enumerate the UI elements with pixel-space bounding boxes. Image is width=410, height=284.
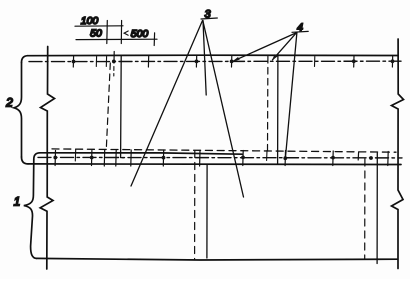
band tick+dot x163.5 (162, 150, 164, 166)
svg-text:100: 100 (81, 15, 99, 27)
axis tick+dot x231.6 (231, 56, 233, 67)
lower panel top edge (40, 153, 242, 154)
right edge with two break symbols (392, 39, 404, 269)
band tick x104.5 (103, 150, 105, 166)
band tick+dot x333 (332, 151, 334, 166)
axis tick+dot x353.8 (353, 56, 355, 67)
axis tick+dot x392.5 (391, 56, 393, 67)
upper panel top edge (28, 54, 399, 57)
axis stub x114 (113, 52, 115, 64)
upper panel top-left corner (22, 56, 28, 63)
upper fastening axis (dash-dot) (29, 60, 401, 62)
band tick+dot x243 (242, 151, 244, 166)
lower joint dashed line x194.7 (194, 151, 196, 260)
upper panel bottom-left corner (22, 157, 29, 164)
svg-text:500: 500 (131, 28, 149, 40)
underline of 4 (292, 30, 308, 33)
extension tick x154.5 (153, 33, 155, 46)
leader 4 long with arrowhead (233, 33, 297, 62)
lower panel top-left corner (34, 153, 40, 159)
underline of 3 (201, 18, 217, 19)
leader 4 short with arrowhead (273, 33, 297, 60)
joint J2 dashed hidden line (267, 57, 269, 153)
axis stub dashes below x114 (113, 67, 115, 77)
dimension line 50/500 (76, 38, 157, 40)
svg-text:1: 1 (14, 194, 21, 208)
band tick+dot x285.3 (284, 151, 286, 166)
svg-text:50: 50 (90, 28, 102, 40)
axis tick x148.5 (147, 56, 149, 67)
joint J1 dashed hidden line (106, 63, 110, 149)
band dot x371 (369, 156, 373, 160)
band tick+dot x91.7 (91, 151, 93, 166)
axis tick x73.5 (72, 56, 74, 67)
band tick x199.8 (199, 151, 201, 167)
extension tick x107 (106, 21, 109, 44)
lower joint solid line x377.2 (376, 153, 378, 264)
band tick x116 (115, 150, 117, 166)
axis tick x314.7 (314, 57, 316, 67)
band tick x75.5 (74, 150, 76, 162)
leader 4 vertical (285, 33, 297, 158)
axis tick x106.5 (105, 57, 107, 67)
leader 3 left diagonal (131, 21, 203, 187)
joint J1 solid line (121, 56, 124, 158)
band T tick x358.4 (357, 152, 359, 160)
axis dot x113.7 (112, 60, 116, 64)
band tick x266.8 (266, 151, 268, 161)
upper panel left edge with brace cusp label 2 (14, 63, 22, 158)
band tick x388 (387, 152, 389, 166)
dimension line 100 (75, 25, 123, 27)
leader 3 middle (203, 21, 206, 96)
lower joint solid line x207 (206, 165, 208, 259)
axis tick+dot x196.5 (195, 56, 197, 67)
svg-text:2: 2 (5, 95, 13, 109)
lower joint dashed line x364.8 (364, 159, 366, 259)
axis tick x96.5 (95, 57, 97, 67)
joint J2 solid line (277, 55, 279, 165)
band fastening axis (dash-dot) (38, 156, 402, 159)
axis dot x73.5 (72, 60, 76, 64)
lower panel left edge with brace cusp label 1 (24, 159, 37, 258)
band hidden dashed line (52, 149, 396, 152)
leader 3 right diagonal (203, 21, 244, 198)
extension tick x121.5 (120, 21, 122, 44)
lower panel bottom edge (37, 258, 398, 260)
arrow before 500 (124, 31, 128, 35)
band tick x131 (130, 150, 132, 166)
grid line x47 with two break symbols (40, 47, 54, 270)
band tick+dot x55.3 (54, 151, 56, 166)
upper panel bottom edge (28, 163, 401, 166)
